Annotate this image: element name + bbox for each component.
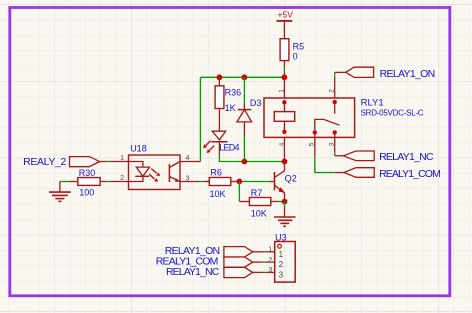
svg-text:R36: R36: [225, 88, 242, 98]
resistor R30: [70, 168, 107, 197]
svg-text:LED4: LED4: [219, 143, 239, 153]
wire pin5 to REALY1_COM: [315, 157, 335, 173]
relay RLY1: [264, 89, 424, 147]
connector U3: [266, 232, 295, 282]
port REALY1_COM: [335, 168, 440, 180]
svg-text:R7: R7: [251, 188, 263, 198]
resistor R6: [204, 168, 240, 199]
relay pin4 wire to collector: [283, 137, 285, 161]
ground (left): [49, 182, 71, 202]
relay switch: [334, 102, 336, 114]
wire pin3 to RELAY1_NC: [334, 153, 336, 156]
wire REALY_2 to pin1: [107, 161, 111, 163]
svg-text:REALY_2: REALY_2: [23, 156, 66, 168]
port RELAY1_NC (bottom): [166, 266, 264, 278]
resistor R7: [239, 188, 278, 219]
resistor R5: [280, 39, 304, 67]
svg-text:RELAY1_NC: RELAY1_NC: [379, 151, 434, 163]
wire LED4 to collector rail: [219, 155, 284, 162]
wire R5 to node: [283, 67, 285, 73]
relay pin5 stub: [314, 137, 316, 156]
wire emitter to ground: [284, 202, 286, 208]
U18 pin3 stub: [180, 181, 199, 183]
wire +5V rail drop to U18 pin4: [199, 77, 201, 161]
svg-text:U18: U18: [130, 143, 147, 153]
power +5V: [277, 10, 294, 39]
U3 pin1 marker circle: [278, 244, 282, 248]
svg-text:0: 0: [293, 52, 298, 62]
svg-text:REALY1_COM: REALY1_COM: [379, 168, 440, 180]
ground (Q2): [274, 208, 296, 227]
svg-text:3: 3: [268, 267, 272, 274]
svg-text:3: 3: [279, 271, 284, 280]
svg-text:1: 1: [268, 247, 272, 254]
wire pin2 to RELAY1_ON: [334, 72, 336, 77]
junction node R36 top: [217, 74, 223, 80]
wire ground to R30: [60, 181, 70, 183]
svg-text:2: 2: [268, 257, 272, 264]
wire to U3 pin3: [264, 271, 267, 273]
junction R7/emitter: [282, 199, 288, 205]
svg-text:R5: R5: [293, 41, 305, 51]
wire to U3 pin2: [264, 261, 267, 263]
svg-text:100: 100: [79, 187, 94, 197]
svg-text:+5V: +5V: [278, 10, 294, 20]
svg-text:RELAY1_NC: RELAY1_NC: [166, 266, 220, 278]
wire to U3 pin1: [264, 251, 267, 253]
junction node +5V/R5: [282, 74, 288, 80]
svg-text:R30: R30: [79, 168, 96, 178]
svg-text:1: 1: [278, 89, 285, 93]
wire pin3 to R6: [199, 181, 203, 183]
svg-text:SRD-05VDC-SL-C: SRD-05VDC-SL-C: [361, 108, 424, 117]
wire node to relay pin1: [283, 73, 285, 98]
junction D3 bottom: [242, 159, 248, 165]
port RELAY1_ON (bottom): [165, 245, 264, 257]
U18 pin4 stub: [180, 161, 200, 163]
LED LED4: [203, 109, 239, 155]
svg-text:1: 1: [279, 250, 284, 259]
transistor Q2: [270, 162, 297, 202]
wire R7 to emitter: [279, 201, 285, 203]
svg-text:2: 2: [279, 260, 284, 269]
port REALY_2: [23, 156, 107, 168]
wire +5V rail horizontal: [200, 76, 284, 78]
U18 pin2 stub: [111, 181, 129, 183]
port RELAY1_ON: [335, 67, 435, 80]
junction node D3 top: [242, 74, 248, 80]
diode D3: [237, 77, 262, 161]
resistor R36: [215, 77, 241, 113]
port RELAY1_NC: [335, 151, 434, 163]
wire junction down to R7: [238, 182, 240, 202]
U3 pin3 stub: [266, 271, 275, 273]
relay pin2 stub: [334, 78, 336, 99]
relay pin3 stub: [334, 137, 336, 152]
svg-text:D3: D3: [250, 98, 262, 108]
port REALY1_COM (bottom): [156, 255, 264, 267]
U18 pin1 stub: [111, 161, 129, 163]
svg-text:1K: 1K: [225, 103, 236, 113]
svg-text:10K: 10K: [210, 189, 226, 199]
svg-text:Q2: Q2: [285, 174, 297, 184]
junction R6/R7/base: [237, 179, 243, 185]
svg-text:RELAY1_ON: RELAY1_ON: [380, 68, 435, 80]
U3 pin2 stub: [266, 261, 275, 263]
svg-text:R6: R6: [210, 168, 222, 178]
wire R6 to Q2 base: [239, 181, 269, 183]
junction relay pin4 / Q2 collector: [282, 159, 288, 165]
U3 pin1 stub: [266, 251, 275, 253]
relay coil: [283, 102, 285, 111]
optocoupler U18: [120, 143, 189, 189]
svg-text:RLY1: RLY1: [361, 98, 384, 109]
wire R30 to pin2: [107, 181, 111, 183]
svg-text:10K: 10K: [251, 208, 267, 218]
